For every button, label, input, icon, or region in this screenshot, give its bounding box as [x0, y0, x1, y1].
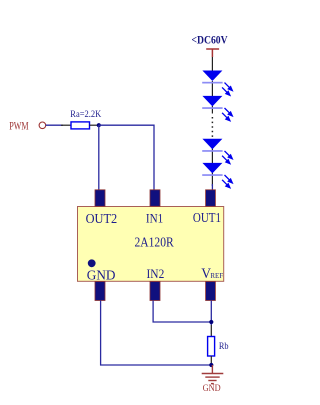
svg-text:IN2: IN2 — [147, 267, 165, 281]
svg-text:IN1: IN1 — [146, 211, 163, 225]
svg-text:PWM: PWM — [9, 120, 28, 132]
svg-text:REF: REF — [210, 271, 223, 280]
svg-text:OUT2: OUT2 — [86, 211, 118, 226]
svg-text:GND: GND — [203, 383, 221, 393]
svg-text:Ra=2.2K: Ra=2.2K — [70, 110, 101, 120]
svg-text:2A120R: 2A120R — [135, 236, 175, 251]
svg-text:GND: GND — [87, 269, 116, 284]
svg-text:Rb: Rb — [219, 342, 229, 352]
svg-text:OUT1: OUT1 — [193, 210, 221, 225]
svg-text:<DC60V: <DC60V — [192, 35, 229, 47]
